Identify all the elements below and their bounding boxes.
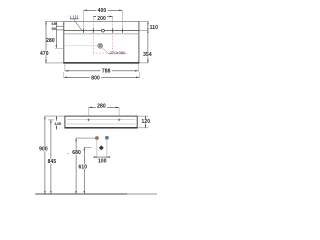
svg-text:470: 470 <box>40 51 49 57</box>
dim 280 bottom tick <box>55 47 64 49</box>
dim 100 extensions <box>97 140 107 159</box>
drain centerline <box>64 45 98 47</box>
svg-text:110: 110 <box>150 25 158 31</box>
red dashed bowl zone left side <box>92 21 94 53</box>
basin right edge (plan) <box>138 21 140 63</box>
svg-text:100: 100 <box>98 158 107 164</box>
front rect <box>65 116 137 128</box>
top-left extension line of elevation <box>45 115 65 117</box>
dim 400 extension lines <box>83 11 122 28</box>
extension from hot point to 680 line <box>76 137 97 139</box>
dim 400 <box>83 9 122 11</box>
front edge extension right <box>139 62 148 64</box>
svg-text:400: 400 <box>98 8 107 14</box>
floor line <box>35 193 127 195</box>
svg-text:610: 610 <box>78 164 87 170</box>
dim 280 front extensions <box>89 108 119 115</box>
dim 610 line <box>83 147 85 194</box>
deck front line (plan) <box>64 33 139 35</box>
dim 845 top tick <box>48 119 54 121</box>
svg-text:50: 50 <box>52 26 57 31</box>
dim 280 front <box>89 106 119 108</box>
red dashed bowl zone bottom <box>93 52 112 54</box>
tap hole cross 2 <box>92 29 94 33</box>
front mid line A <box>67 119 135 121</box>
dim 100 <box>93 156 110 158</box>
dim 470 far left <box>45 21 47 63</box>
waste outlet diamond <box>99 145 104 150</box>
mounting hole left <box>87 119 90 122</box>
drain circle <box>98 43 103 48</box>
tap hole cross 3 <box>112 29 114 33</box>
svg-text:788: 788 <box>102 68 111 74</box>
basin back edge (plan) <box>64 20 139 22</box>
dim 680 line <box>75 138 77 194</box>
dim 120 <box>145 116 147 128</box>
front rect bottom edge thick <box>65 127 138 129</box>
dim 354 text <box>143 52 153 56</box>
dim 900 line far left <box>44 116 46 194</box>
supply point cold (right) <box>105 136 109 140</box>
svg-text:845: 845 <box>48 159 57 165</box>
tap hole cross 1 <box>82 29 84 33</box>
svg-text:145: 145 <box>54 121 61 126</box>
dim 200 extension lines <box>93 17 112 21</box>
basin left edge (plan) <box>63 21 65 63</box>
svg-text:354: 354 <box>143 52 152 58</box>
dim 800 <box>64 76 140 78</box>
red dashed bowl zone right side <box>112 21 114 53</box>
hole row extension right <box>139 30 149 32</box>
svg-text:270x380: 270x380 <box>110 51 126 55</box>
dim 200 <box>93 15 112 17</box>
svg-text:280: 280 <box>97 103 106 109</box>
dim 65 tick <box>56 25 64 27</box>
front mid line B <box>67 123 135 125</box>
dim 788 extensions <box>65 64 138 72</box>
drain red leader <box>102 48 127 54</box>
svg-text:900: 900 <box>39 147 48 153</box>
mounting hole right <box>118 119 121 122</box>
basin front edge thick (plan) <box>63 62 139 64</box>
tick left of 680 text <box>68 152 70 154</box>
supply point hot (left) <box>95 136 99 140</box>
right dim line 110/354 <box>147 21 149 63</box>
dim 788 <box>65 70 138 72</box>
dim 120 right extensions <box>138 115 148 117</box>
dim 145 <box>56 116 58 130</box>
dim 50 tick <box>56 29 64 31</box>
svg-text:680: 680 <box>72 150 81 156</box>
leader from label to tap hole <box>74 20 82 31</box>
dim 280 left vertical <box>55 21 57 48</box>
svg-text:L111: L111 <box>70 14 80 19</box>
tap deck line with holes (plan) <box>64 30 139 32</box>
dim 800 extensions <box>64 72 140 78</box>
dim 845 line <box>50 120 52 194</box>
svg-text:280: 280 <box>46 38 55 44</box>
610 top tick <box>84 146 91 148</box>
back edge extension left <box>45 20 64 22</box>
front edge extension left <box>45 62 63 64</box>
svg-text:200: 200 <box>97 16 106 22</box>
svg-text:120: 120 <box>141 119 150 125</box>
svg-text:800: 800 <box>91 75 100 81</box>
tap hole cross 4 <box>122 29 124 33</box>
tap hole circle (center) <box>101 29 104 32</box>
back edge extension right <box>139 20 149 22</box>
